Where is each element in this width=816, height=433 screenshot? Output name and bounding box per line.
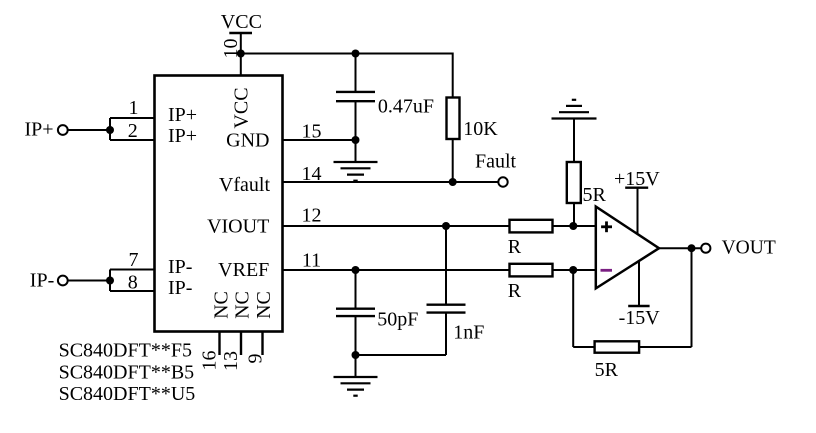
svg-text:IP+: IP+ bbox=[168, 125, 197, 147]
svg-text:IP-: IP- bbox=[168, 256, 192, 278]
wire R top to opamp bbox=[553, 225, 596, 227]
label 1nF bbox=[453, 322, 484, 344]
resistor R top bbox=[510, 220, 553, 233]
svg-text:VCC: VCC bbox=[231, 87, 253, 128]
wire C3 bottom lead bbox=[356, 313, 447, 355]
IC pin name IP+ 2 bbox=[168, 125, 197, 147]
svg-text:VOUT: VOUT bbox=[722, 238, 776, 259]
pin 15 label bbox=[302, 121, 322, 143]
wire pin9 stub bbox=[261, 332, 263, 356]
wire C1 bottom lead bbox=[355, 101, 357, 140]
svg-text:IP-: IP- bbox=[30, 270, 54, 292]
ground G1 bbox=[334, 140, 378, 181]
IC pin name VREF bbox=[218, 259, 269, 281]
wire VCC top rail bbox=[241, 53, 453, 55]
capacitor C2 50pF bbox=[336, 309, 375, 316]
supply -15V bbox=[619, 261, 661, 330]
wire C1 top lead bbox=[355, 54, 357, 92]
svg-text:14: 14 bbox=[302, 163, 322, 185]
svg-text:1nF: 1nF bbox=[453, 322, 484, 344]
label SC840DFT**B5 bbox=[59, 362, 195, 384]
pin 11 label bbox=[302, 249, 321, 271]
IC pin name IP- 8 bbox=[168, 277, 192, 299]
op-amp plus input mark bbox=[601, 221, 612, 232]
svg-text:8: 8 bbox=[128, 272, 138, 294]
terminal Fault bbox=[498, 177, 507, 186]
label SC840DFT**U5 bbox=[59, 383, 196, 405]
resistor 5R top bbox=[567, 162, 581, 203]
svg-text:IP-: IP- bbox=[168, 277, 192, 299]
wire pin16 stub bbox=[218, 332, 220, 356]
ground G2 bbox=[334, 355, 378, 396]
svg-text:-15V: -15V bbox=[619, 307, 661, 329]
op-amp A1 bbox=[596, 207, 659, 289]
IC pin name IP- 7 bbox=[168, 256, 192, 278]
label 10K bbox=[463, 118, 498, 140]
wire C3 top lead bbox=[445, 226, 447, 305]
wire Vfault pin14 bbox=[283, 181, 498, 183]
IC pin name NC 13 bbox=[231, 291, 253, 319]
junction VREF/C2 bbox=[352, 266, 360, 274]
svg-text:15: 15 bbox=[302, 121, 322, 143]
svg-text:Vfault: Vfault bbox=[219, 174, 271, 196]
wire feedback right leg bbox=[639, 248, 691, 347]
pin 1 label bbox=[129, 97, 139, 119]
wire IP+ bracket bbox=[110, 118, 155, 140]
wire pin13 stub bbox=[240, 332, 242, 356]
pin 16 label bbox=[198, 351, 220, 371]
pin 13 label bbox=[220, 351, 242, 371]
svg-text:SC840DFT**F5: SC840DFT**F5 bbox=[59, 340, 192, 362]
label VOUT bbox=[722, 238, 776, 259]
label 5R feedback bbox=[595, 359, 619, 381]
label 50pF bbox=[377, 309, 418, 331]
IC pin name IP+ 1 bbox=[168, 104, 197, 126]
junction VCC pin10 bbox=[237, 50, 245, 58]
wire C2 bottom lead bbox=[355, 316, 357, 355]
IC pin name NC 16 bbox=[210, 291, 232, 319]
svg-text:1: 1 bbox=[129, 97, 139, 119]
junction top rail / C1 bbox=[352, 50, 360, 58]
svg-text:R: R bbox=[508, 236, 522, 258]
supply +15V bbox=[614, 168, 660, 235]
terminal VOUT bbox=[701, 244, 710, 253]
svg-text:IP+: IP+ bbox=[25, 119, 54, 141]
pin 9 label bbox=[244, 354, 266, 364]
resistor R bottom bbox=[510, 264, 553, 277]
junction C2/C3 bottom bbox=[352, 351, 360, 359]
svg-text:5R: 5R bbox=[595, 359, 619, 381]
svg-text:12: 12 bbox=[302, 205, 322, 227]
wire IP- bracket bbox=[110, 270, 155, 292]
svg-text:10K: 10K bbox=[463, 118, 498, 140]
junction inverting node bbox=[569, 266, 577, 274]
junction noninverting node bbox=[569, 222, 577, 230]
svg-text:VIOUT: VIOUT bbox=[207, 215, 269, 237]
pin 14 label bbox=[302, 163, 322, 185]
terminal IP+ bbox=[25, 119, 68, 141]
svg-text:NC: NC bbox=[210, 291, 232, 319]
svg-text:9: 9 bbox=[244, 354, 266, 364]
pin 10 label bbox=[220, 39, 242, 59]
svg-text:5R: 5R bbox=[583, 184, 607, 206]
IC pin name GND bbox=[226, 130, 269, 152]
svg-text:IP+: IP+ bbox=[168, 104, 197, 126]
op-amp minus input mark bbox=[601, 269, 613, 272]
junction output node bbox=[688, 244, 696, 252]
svg-text:SC840DFT**B5: SC840DFT**B5 bbox=[59, 362, 195, 384]
svg-text:R: R bbox=[508, 280, 522, 302]
wire 5R to noninverting node bbox=[573, 203, 575, 226]
pin 8 label bbox=[128, 272, 138, 294]
junction GND/C1 bbox=[352, 136, 360, 144]
wire VIOUT pin12 bbox=[283, 225, 510, 227]
label Fault bbox=[475, 151, 517, 173]
IC pin name NC 9 bbox=[253, 291, 275, 319]
wire C2 top lead bbox=[355, 270, 357, 309]
svg-text:50pF: 50pF bbox=[377, 309, 418, 331]
IC U1 SC840DFT body bbox=[155, 76, 283, 332]
svg-text:NC: NC bbox=[253, 291, 275, 319]
svg-text:11: 11 bbox=[302, 249, 321, 271]
pin 12 label bbox=[302, 205, 322, 227]
label SC840DFT**F5 bbox=[59, 340, 192, 362]
resistor 10K bbox=[447, 98, 460, 140]
terminal IP- bbox=[30, 270, 68, 292]
pin 2 label bbox=[128, 120, 138, 142]
IC pin name Vfault bbox=[219, 174, 271, 196]
svg-text:VREF: VREF bbox=[218, 259, 269, 281]
svg-text:SC840DFT**U5: SC840DFT**U5 bbox=[59, 383, 196, 405]
svg-text:GND: GND bbox=[226, 130, 269, 152]
wire GND pin15 bbox=[283, 139, 356, 141]
wire opamp output bbox=[658, 247, 701, 249]
svg-text:7: 7 bbox=[129, 249, 139, 271]
svg-text:NC: NC bbox=[231, 291, 253, 319]
svg-text:2: 2 bbox=[128, 120, 138, 142]
svg-text:16: 16 bbox=[198, 351, 220, 371]
svg-text:Fault: Fault bbox=[475, 151, 517, 173]
resistor 5R feedback bbox=[595, 341, 640, 352]
svg-text:0.47uF: 0.47uF bbox=[378, 96, 434, 118]
label R top bbox=[508, 236, 522, 258]
junction VIOUT/C3 bbox=[442, 222, 450, 230]
svg-text:VCC: VCC bbox=[221, 11, 262, 33]
label 0.47uF bbox=[378, 96, 434, 118]
ground G3 flipped bbox=[552, 100, 597, 119]
wire feedback left leg bbox=[573, 270, 594, 347]
wire G3 to 5R bbox=[573, 119, 575, 163]
junction IP+ bbox=[106, 126, 114, 134]
pin 7 label bbox=[129, 249, 139, 271]
wire IP- lead bbox=[68, 280, 110, 282]
net VCC symbol bbox=[221, 11, 262, 76]
junction Vfault/10K bbox=[449, 178, 457, 186]
label R bottom bbox=[508, 280, 522, 302]
IC pin name VCC rotated bbox=[231, 87, 253, 128]
svg-text:13: 13 bbox=[220, 351, 242, 371]
label 5R top bbox=[583, 184, 607, 206]
capacitor C3 1nF bbox=[427, 305, 466, 313]
wire IP+ lead bbox=[68, 129, 110, 131]
capacitor C1 0.47uF bbox=[336, 92, 375, 101]
junction IP- bbox=[106, 277, 114, 285]
wire R bottom to opamp bbox=[553, 269, 596, 271]
wire VREF pin11 bbox=[283, 269, 510, 271]
wire 10K top lead bbox=[452, 53, 454, 98]
IC pin name VIOUT bbox=[207, 215, 269, 237]
wire 10K bottom lead bbox=[452, 139, 454, 182]
